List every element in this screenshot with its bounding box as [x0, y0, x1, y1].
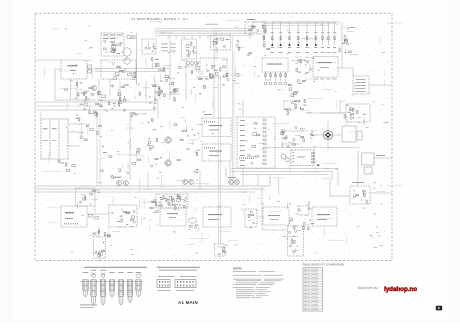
- svg-text:A1 MAIN BOARD ( NOTES 7 -: A1 MAIN BOARD ( NOTES 7 - 8 ): [131, 17, 188, 21]
- svg-text:Scannet av:: Scannet av:: [358, 285, 379, 290]
- svg-text:NOTES: NOTES: [233, 267, 242, 270]
- svg-text:lydshop.no: lydshop.no: [384, 286, 417, 293]
- svg-text:TABLE) SENSITIVITY OF AMPLI: TABLE) SENSITIVITY OF AMPLIFIERS: [302, 264, 345, 267]
- svg-text:A1 MAIN: A1 MAIN: [178, 300, 198, 305]
